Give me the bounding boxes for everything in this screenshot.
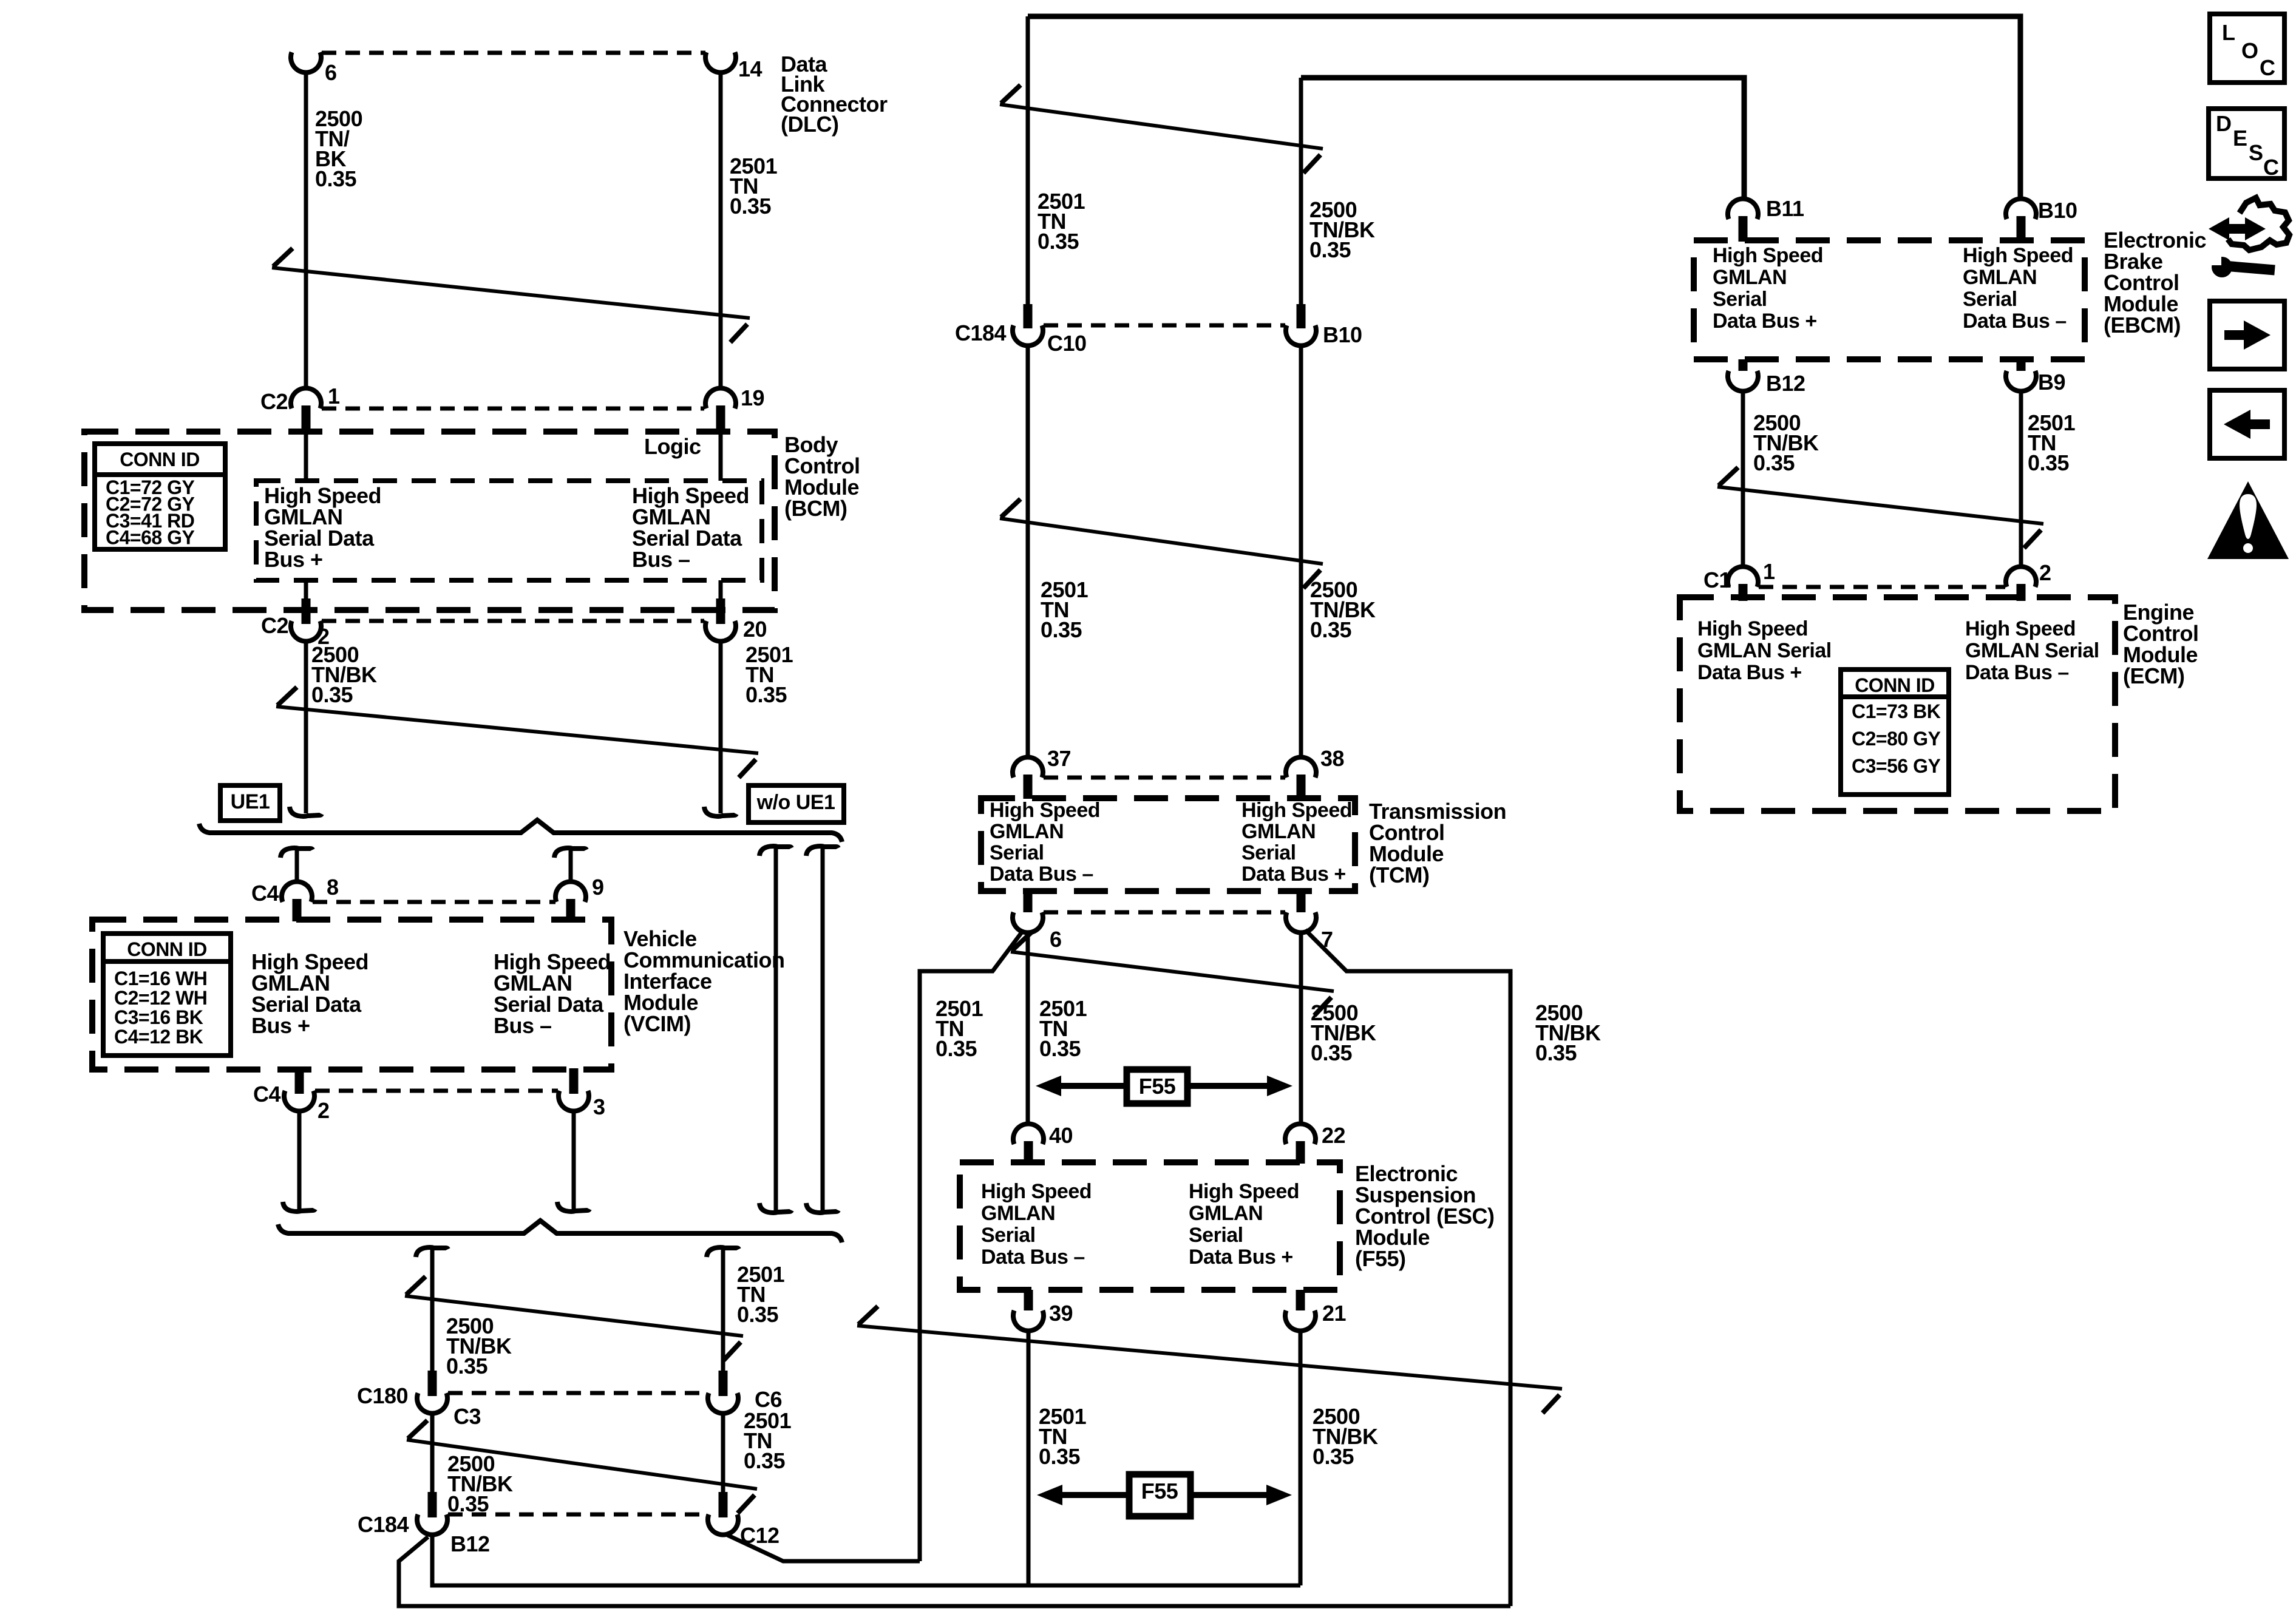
wire label 2500 TN/BK 0.35 [1309,197,1375,262]
connector ECM C1 pin 1 [1703,559,1775,601]
svg-text:C: C [2263,155,2279,180]
wire label 2501 TN 0.35 [746,642,793,707]
label Transmission Control Module (TCM) [1369,799,1506,887]
svg-text:B10: B10 [1323,322,1362,347]
connector C6 [708,1371,782,1414]
wire label 2501 TN 0.35 [1038,189,1085,254]
crossing indicator A1 [272,248,750,342]
svg-text:C4=68 GY: C4=68 GY [106,527,194,549]
ESC module box [960,1162,1340,1290]
svg-text:C1: C1 [1703,568,1731,592]
crossing indicator A3 [1000,85,1323,173]
bus wire top [1028,16,2020,200]
svg-text:2: 2 [2039,560,2051,585]
TCM text High Speed GMLAN Serial Data Bus - [990,799,1100,886]
VCIM bottom row dashed line [315,1089,558,1093]
label Body Control Module (BCM) [784,432,860,521]
svg-text:C10: C10 [1047,331,1087,356]
svg-text:S: S [2249,140,2263,165]
wire ESC pin39 to bottom bus [1027,1331,1031,1585]
svg-text:CONN ID: CONN ID [127,938,207,960]
svg-text:22: 22 [1322,1123,1345,1148]
svg-text:20: 20 [743,617,767,642]
connector C184 pin B12 [358,1492,490,1556]
svg-text:D: D [2216,111,2232,136]
ECM text High Speed GMLAN Serial Data Bus - [1965,617,2099,684]
svg-text:CONN ID: CONN ID [120,449,200,470]
svg-text:2: 2 [318,1098,330,1123]
harness brace upper [199,820,842,842]
label Electronic Suspension Control (ESC) Module (F55) [1355,1161,1494,1271]
label Logic [644,434,701,459]
wire label 2500 TN/BK 0.35 [311,642,377,707]
wire label 2501 TN 0.35 [744,1408,792,1473]
wire C184 branch to bottom bus [399,1537,1510,1606]
EBCM module box [1694,240,2085,359]
wire label 2500 TN/BK 0.35 [1311,1000,1376,1065]
svg-text:C: C [2260,55,2275,80]
connector TCM pin 37 [1013,746,1071,799]
C184 row dashed line [448,1513,707,1517]
ECM module box [1680,597,2115,811]
ECM CONN ID table [1841,670,1949,795]
connector C12 [708,1492,779,1548]
connector C4 pin 2 [253,1068,330,1123]
ECM pin row dashed line [1759,585,2005,589]
wire B10row to TCM pin38 [1299,345,1303,758]
wire 2501 DLC pin14 to BCM pin19 [719,72,723,388]
connector TCM pin 38 [1286,746,1344,799]
svg-text:E: E [2233,126,2247,151]
icon DESC box [2209,109,2284,180]
wire ESC pin21 to bottom bus [1299,1331,1303,1585]
wire TCM pin7 branch to right riser [1305,930,1510,1606]
wire VCIM pin3 down [557,1111,589,1212]
crossing indicator A6 [857,1306,1562,1413]
svg-text:1: 1 [1763,559,1775,584]
wire label 2501 TN 0.35 [737,1262,785,1327]
svg-text:C184: C184 [955,320,1007,345]
connector ESC pin 22 [1285,1123,1345,1164]
svg-text:Logic: Logic [644,434,701,459]
C10 row dashed line [1044,324,1285,328]
wire label 2500 TN/BK 0.35 [1753,410,1819,475]
svg-text:C2=80 GY: C2=80 GY [1852,728,1940,750]
svg-text:C1=73 BK: C1=73 BK [1852,700,1941,722]
wire stub to VCIM pin8 [280,848,313,883]
BCM pin row dashed line [322,407,704,411]
VCIM CONN ID table [103,934,231,1056]
C180 row dashed line [448,1391,707,1395]
label UE1 [220,785,280,821]
svg-text:UE1: UE1 [231,790,270,813]
ECM text High Speed GMLAN Serial Data Bus + [1697,617,1832,684]
crossing indicator A7 [407,1420,757,1513]
wire VCIM pin2 down [283,1111,315,1212]
connector TCM pin 6 [1013,889,1062,952]
long wire bus right [806,846,838,1213]
svg-text:C4: C4 [253,1082,280,1107]
connector ECM pin 2 [2006,560,2051,601]
svg-text:C3=56 GY: C3=56 GY [1852,755,1940,777]
crossing indicator A2 [276,687,758,778]
wire TCM pin7 to ESC pin22 [1299,932,1303,1124]
svg-text:C3=16 BK: C3=16 BK [114,1006,203,1028]
svg-text:B11: B11 [1766,196,1804,221]
label Vehicle Communication Interface Module (VCIM) [623,926,785,1036]
wire B12 to bottom bus [432,1534,1300,1585]
svg-text:C3: C3 [453,1404,481,1429]
connector C180 pin C3 [357,1371,481,1429]
connector EBCM pin B12 [1728,359,1805,396]
crossing indicator A8 [405,1276,743,1360]
wire BCM logic to pin20 [719,580,723,602]
VCIM pin row dashed line [313,900,555,904]
wire label 2500 TN/BK 0.35 [1313,1404,1378,1469]
wire label 2501 TN 0.35 [2028,410,2076,475]
svg-text:CONN ID: CONN ID [1855,674,1935,696]
wire BCM logic to pin2 [304,580,308,602]
long wire bus left [759,846,792,1213]
connector C2 pin 1 [260,384,340,433]
wire BCM pin1 into logic box [304,433,308,481]
connector C4 pin 9 [555,875,604,921]
connector EBCM pin B9 [2006,359,2065,395]
svg-text:40: 40 [1049,1123,1073,1148]
connector DLC pin 6 [291,52,337,85]
crossing indicator A5 [1011,932,1334,1015]
svg-text:B10: B10 [2038,198,2077,223]
svg-text:21: 21 [1322,1301,1347,1326]
label Engine Control Module (ECM) [2123,600,2198,688]
svg-text:B9: B9 [2038,370,2065,395]
svg-text:B12: B12 [450,1531,490,1556]
svg-text:C2: C2 [261,613,288,638]
TCM pin row dashed line [1044,776,1285,780]
icon arrow right box [2210,301,2284,369]
connector C2 pin 2 [261,598,330,649]
wire label 2500 TN/BK 0.35 [1535,1000,1601,1065]
BCM CONN ID table [95,444,225,549]
VCIM module box [92,920,611,1070]
connector TCM pin 7 [1286,889,1333,952]
BCM bottom row dashed line [322,619,704,623]
connector ESC pin 21 [1285,1290,1347,1331]
BCM text High Speed GMLAN Serial Data Bus - [632,483,749,572]
wire label 2500 TN/BK 0.35 [447,1451,513,1516]
TCM module box [981,798,1355,891]
connector EBCM pin B10 [2006,198,2077,242]
wire label 2500 TN/BK 0.35 [315,106,362,191]
svg-text:F55: F55 [1141,1479,1178,1503]
wire 2500 BCM pin2 to UE1 [290,641,322,816]
wire TCM pin6 to ESC pin40 [1026,932,1030,1124]
connector C4 pin 3 [559,1068,605,1119]
svg-text:w/o UE1: w/o UE1 [756,791,835,814]
icon warning triangle [2207,481,2289,559]
connector B10 mid [1286,304,1362,347]
wire stub to C6 [707,1247,739,1373]
svg-text:L: L [2222,20,2235,45]
connector C184 pin C10 [955,304,1087,356]
svg-text:C4=12 BK: C4=12 BK [114,1026,203,1048]
BCM text High Speed GMLAN Serial Data Bus + [264,483,381,572]
wire label 2501 TN 0.35 [730,154,778,219]
EBCM text High Speed GMLAN Serial Data Bus + [1713,244,1823,333]
svg-text:C1=16 WH: C1=16 WH [114,968,207,989]
ESC text High Speed GMLAN Serial Data Bus + [1189,1180,1299,1269]
svg-text:14: 14 [738,56,763,81]
connector ESC pin 40 [1013,1123,1073,1164]
icon tools [2209,198,2289,277]
crossing indicator A9 [1717,467,2043,548]
svg-text:6: 6 [325,60,337,85]
fuse block jumper F55 upper [1036,1070,1292,1103]
ESC text High Speed GMLAN Serial Data Bus - [981,1180,1092,1269]
wire C10 to TCM pin37 [1026,345,1030,758]
DLC connector row dashed line [322,51,705,55]
svg-text:C4: C4 [251,881,279,906]
TCM bottom row dashed line [1044,910,1285,915]
BCM logic inner box [256,481,762,580]
connector C2 pin 19 [705,385,764,433]
svg-text:9: 9 [592,875,604,900]
VCIM text High Speed GMLAN Serial Data Bus - [494,949,611,1038]
wire 2501 BCM pin20 to w/o UE1 [704,641,736,816]
connector ESC pin 39 [1013,1290,1073,1331]
crossing indicator A4 [1000,499,1323,588]
wire C6 to C12 [721,1413,725,1492]
svg-text:8: 8 [327,875,339,900]
wire C12 to left riser [726,1534,920,1561]
svg-text:C180: C180 [357,1383,408,1408]
wire stub to VCIM pin9 [554,848,586,883]
harness brace lower [278,1221,842,1242]
wire label 2500 TN/BK 0.35 [446,1314,512,1378]
svg-text:39: 39 [1049,1301,1073,1326]
wire label 2501 TN 0.35 [936,996,983,1061]
wire BCM pin19 into logic box [719,433,723,481]
wire 2500 to B10row [1299,78,1303,307]
svg-text:B12: B12 [1766,371,1805,396]
BCM module box [84,432,775,610]
TCM text High Speed GMLAN Serial Data Bus + [1241,799,1352,886]
EBCM text High Speed GMLAN Serial Data Bus - [1963,244,2073,333]
svg-text:C2=12 WH: C2=12 WH [114,987,207,1009]
wire 2501 to C10 [1026,16,1030,307]
svg-text:F55: F55 [1139,1074,1176,1099]
connector DLC pin 14 [705,52,763,81]
svg-text:3: 3 [593,1094,605,1119]
wire label 2501 TN 0.35 [1039,1404,1087,1469]
svg-text:19: 19 [741,385,764,410]
svg-text:6: 6 [1050,927,1062,952]
svg-text:37: 37 [1047,746,1071,771]
icon arrow left box [2210,390,2284,458]
wire stub to C180 [416,1247,448,1373]
connector C4 pin 8 [251,875,339,921]
label Data Link Connector (DLC) [781,52,888,137]
svg-text:38: 38 [1320,746,1344,771]
svg-text:C2: C2 [260,389,288,414]
wire B9 to ECM pin2 [2019,391,2023,568]
svg-text:1: 1 [328,384,340,408]
icon LOC box [2210,14,2284,83]
wire 2500 DLC pin6 to BCM pin1 [304,72,308,388]
wire label 2501 TN 0.35 [1039,996,1087,1061]
VCIM text High Speed GMLAN Serial Data Bus + [251,949,369,1038]
wire label 2500 TN/BK 0.35 [1310,577,1376,642]
label Electronic Brake Control Module (EBCM) [2104,228,2206,337]
wire label 2501 TN 0.35 [1041,577,1089,642]
svg-text:C184: C184 [358,1512,409,1537]
wire B12 to ECM C1 [1741,391,1745,568]
label w/o UE1 [749,785,844,822]
connector C2 pin 20 [705,598,767,642]
connector EBCM pin B11 [1728,196,1804,242]
fuse block jumper F55 lower [1037,1474,1292,1516]
wire C3 to C184 [430,1413,435,1492]
bus wire second [1301,78,1744,200]
wire TCM pin6 branch to left riser [920,930,1024,1561]
svg-text:O: O [2241,38,2258,63]
